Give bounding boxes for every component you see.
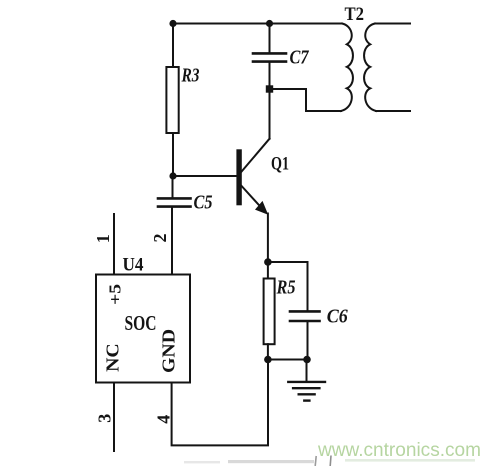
op IC U4 box	[96, 275, 190, 383]
svg-text:GND: GND	[158, 329, 178, 373]
svg-text:C7: C7	[290, 47, 310, 69]
wire pin1 lead	[113, 214, 115, 275]
wire pin2 lead	[171, 207, 173, 275]
node junction R5 bottom	[264, 356, 272, 364]
wire R5 bottom lead	[267, 344, 269, 359]
ground	[288, 382, 325, 401]
transformer T2 primary winding	[341, 24, 353, 112]
resistor R3	[166, 67, 178, 133]
capacitor C6	[290, 311, 320, 321]
node junction top-left	[169, 20, 176, 27]
svg-text:U4: U4	[123, 254, 144, 275]
wire emitter vertical	[267, 214, 269, 263]
wire top rail	[173, 23, 342, 25]
node junction base	[169, 172, 176, 179]
svg-text:C6: C6	[327, 306, 348, 328]
transistor Q1 base bar	[236, 149, 241, 205]
wire C6 bottom lead	[307, 321, 309, 360]
wire pin4 lead	[172, 360, 268, 446]
wire C7 top lead	[269, 24, 271, 54]
wire R3 top lead	[172, 24, 174, 68]
wire secondary top	[375, 23, 410, 25]
wire Q1 collector vertical	[269, 89, 271, 139]
node junction emitter	[264, 258, 272, 266]
wire C6 top lead	[307, 262, 309, 311]
wire pin3 lead	[113, 383, 115, 452]
wire emitter to C6 branch	[268, 261, 308, 263]
svg-text:2: 2	[150, 234, 170, 243]
resistor R5	[264, 279, 275, 345]
scan artifact faint text smudge	[228, 460, 314, 463]
svg-text:Q1: Q1	[271, 154, 289, 175]
wire C5 top lead	[172, 176, 174, 198]
node junction C6 bottom	[303, 356, 311, 364]
scan artifact vertical streak right	[329, 456, 332, 466]
svg-text:T2: T2	[345, 4, 365, 25]
wire R5 top lead	[267, 262, 269, 279]
scan artifact vertical streak left	[315, 456, 316, 466]
wire bottom link	[268, 359, 307, 361]
wire ground lead	[306, 360, 308, 382]
wire R3 bottom lead	[172, 133, 174, 176]
svg-text:C5: C5	[194, 192, 213, 214]
node junction collector	[266, 85, 273, 92]
svg-text:NC: NC	[103, 343, 123, 372]
capacitor C7	[253, 53, 286, 61]
svg-text:www.cntronics.com: www.cntronics.com	[317, 439, 481, 461]
svg-text:1: 1	[93, 234, 113, 243]
wire secondary bottom	[376, 110, 410, 112]
svg-text:R5: R5	[276, 277, 296, 299]
svg-text:R3: R3	[181, 65, 200, 87]
svg-text:+5: +5	[105, 284, 124, 305]
wire Q1 collector slant	[242, 139, 270, 172]
capacitor C5	[158, 198, 191, 206]
Q1 emitter arrowhead	[255, 201, 268, 215]
svg-text:SOC: SOC	[125, 311, 157, 335]
node junction top-mid	[266, 20, 273, 27]
transformer T2 secondary winding	[364, 24, 376, 112]
svg-text:4: 4	[154, 415, 174, 424]
wire to transformer primary	[270, 89, 342, 111]
wire base	[173, 175, 236, 177]
svg-text:3: 3	[95, 414, 115, 423]
wire C7 bottom lead	[269, 62, 271, 89]
wire Q1 emitter slant	[242, 186, 263, 210]
